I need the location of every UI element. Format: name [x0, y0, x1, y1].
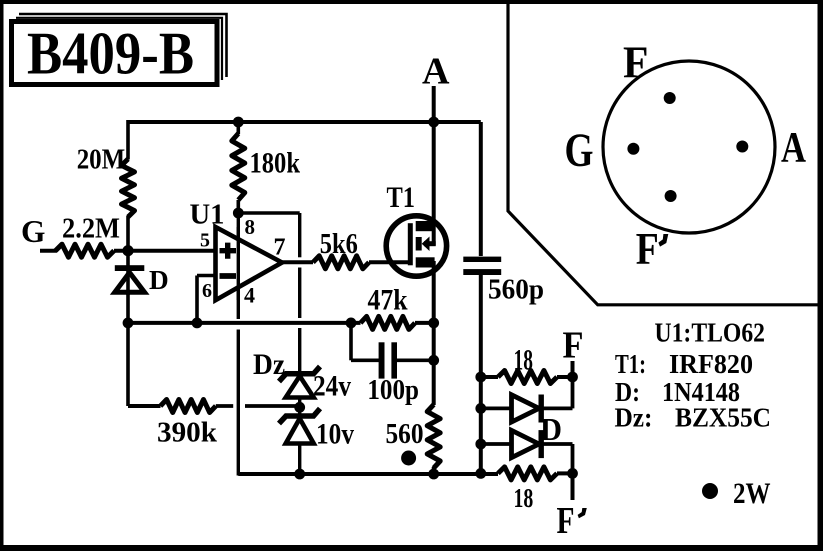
wire: op-amp output to 5k6 [282, 260, 313, 264]
2W legend dot [702, 483, 718, 499]
diode D2 [481, 442, 512, 446]
resistor 5k6 [313, 256, 369, 269]
wire: top right to 560p [479, 122, 483, 256]
diode D1 [481, 406, 512, 410]
svg-text:BZX55C: BZX55C [675, 403, 771, 433]
wire: G input [40, 249, 57, 253]
wire: zener column with crossing gaps [298, 213, 301, 257]
wire: gate [369, 260, 409, 264]
svg-text:2.2M: 2.2M [62, 214, 120, 245]
wire: 390k row [128, 404, 161, 408]
svg-text:F: F [636, 223, 659, 274]
svg-text:7: 7 [274, 235, 286, 261]
svg-text:180k: 180k [250, 147, 301, 180]
resistor 180k [237, 122, 241, 134]
2W marker dot at 560 [401, 451, 416, 466]
pinout circle [603, 61, 775, 233]
svg-text:20M: 20M [77, 143, 126, 175]
svg-text:G: G [565, 124, 594, 177]
resistor 20M [122, 159, 135, 217]
resistor 560 [427, 405, 440, 468]
svg-text:5: 5 [200, 230, 210, 252]
svg-text:T1:: T1: [615, 349, 646, 379]
capacitor 560p [463, 257, 501, 262]
wire: F apostrophe terminal [571, 473, 575, 500]
svg-text:18: 18 [514, 344, 533, 377]
diode D (cathode bar + hollow triangle) [115, 265, 145, 271]
svg-text:Dz:: Dz: [615, 403, 653, 433]
svg-text:U1: U1 [190, 198, 225, 230]
svg-text:2W: 2W [733, 477, 771, 510]
svg-text:G: G [21, 213, 46, 249]
svg-text:A: A [422, 51, 450, 93]
op-amp U1 [216, 227, 283, 300]
resistor 18 (top) [481, 375, 498, 379]
svg-text:D: D [149, 265, 169, 295]
wire: source down to feedback row [432, 261, 436, 323]
wire: left column to G node [126, 216, 130, 295]
svg-text:10v: 10v [316, 418, 354, 451]
resistor 2.2M [56, 244, 115, 257]
pinout panel boundary [508, 2, 820, 305]
resistor 390k [160, 400, 215, 413]
resistor 18 (bottom) [498, 467, 557, 480]
op-amp plus sign [220, 243, 237, 259]
svg-text:6: 6 [202, 280, 212, 302]
svg-text:8: 8 [245, 215, 256, 239]
wire: left column below D [126, 291, 130, 406]
svg-text:47k: 47k [368, 284, 408, 317]
wire: top rail [128, 120, 481, 124]
wire: supply link to zener column [237, 211, 300, 215]
F apostrophe tick [578, 508, 587, 518]
wire: left column top [126, 120, 130, 160]
svg-text:390k: 390k [157, 417, 218, 449]
wire: bottom rail [238, 472, 498, 476]
svg-text:B409-B: B409-B [27, 21, 194, 87]
resistor 47k [361, 316, 416, 329]
svg-text:560p: 560p [488, 275, 544, 306]
svg-text:18: 18 [514, 483, 534, 513]
wire: 560p down to F-network rail [479, 275, 483, 474]
svg-text:IRF820: IRF820 [669, 349, 753, 379]
svg-text:4: 4 [244, 283, 255, 308]
svg-text:T1: T1 [387, 181, 416, 214]
wire: down to 560 [432, 323, 436, 405]
svg-text:A: A [781, 125, 806, 172]
wire: pin6 feedback [197, 274, 216, 278]
svg-text:5k6: 5k6 [320, 228, 358, 260]
wire: A to drain [432, 86, 436, 246]
capacitor 100p branch [349, 323, 353, 360]
op-amp minus sign [220, 273, 237, 279]
wire: F terminal [571, 361, 575, 377]
svg-text:24v: 24v [313, 370, 351, 403]
svg-text:F: F [557, 500, 575, 542]
svg-text:100p: 100p [367, 374, 419, 406]
transistor T1 (MOSFET) [386, 216, 446, 276]
svg-text:F: F [563, 325, 584, 367]
wire: feedback row [128, 321, 361, 325]
svg-text:F: F [623, 38, 648, 88]
svg-text:Dz: Dz [253, 348, 285, 381]
svg-text:U1:TLO62: U1:TLO62 [655, 317, 766, 348]
title box B409-B [19, 14, 227, 77]
pinout pin dots [664, 92, 676, 104]
wire: G node to op-amp pin5 [114, 249, 216, 253]
zener Dz 10v [279, 409, 320, 424]
svg-text:560: 560 [386, 418, 424, 450]
wire: pin8/pin4 column (through op-amp, gap at feedback wire) [237, 213, 240, 319]
